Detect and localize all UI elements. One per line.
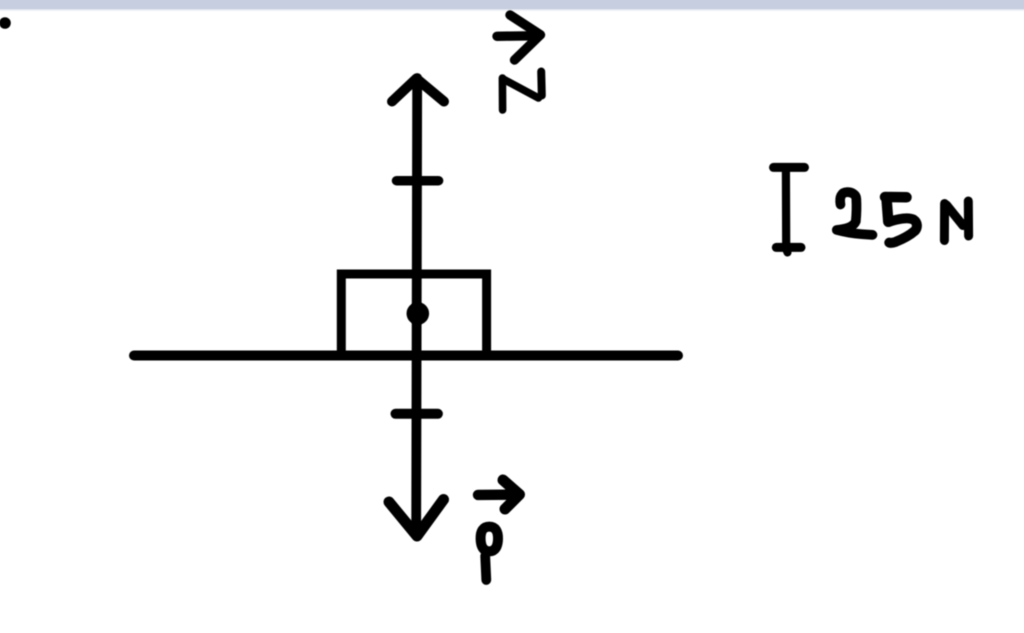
label N (normal force) (502, 72, 541, 111)
stray pen dot (top-left) (0, 17, 11, 29)
vector arrow over label P (478, 480, 520, 509)
vector arrow over label N (497, 15, 541, 60)
force line shaft (vertical through block) (416, 78, 417, 528)
block (box) resting on surface (341, 274, 486, 352)
scale bracket I (capital-I measuring mark) (774, 167, 805, 252)
scale value digit 2 (837, 192, 873, 235)
tick mark upper (N vector scale division) (397, 176, 439, 186)
tick mark lower (P vector scale division) (396, 409, 438, 419)
scale unit letter N (944, 201, 968, 241)
ground surface line (134, 351, 678, 361)
center-of-mass dot on block (407, 302, 430, 325)
label P (weight force) (481, 527, 498, 580)
arrowhead N (up arrow tip) (392, 79, 444, 102)
app toolbar bottom edge (light blue-gray bar) (0, 0, 1024, 13)
scale value digit 5 (885, 197, 917, 243)
arrowhead P (down arrow tip) (389, 500, 444, 537)
